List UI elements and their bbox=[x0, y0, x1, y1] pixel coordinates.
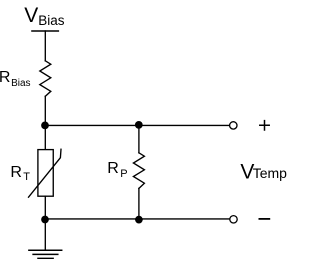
svg-text:Temp: Temp bbox=[253, 165, 287, 181]
svg-text:P: P bbox=[120, 168, 127, 180]
svg-text:T: T bbox=[23, 171, 30, 183]
svg-text:Bias: Bias bbox=[38, 13, 65, 28]
svg-text:R: R bbox=[10, 164, 22, 181]
svg-text:Bias: Bias bbox=[11, 78, 30, 89]
svg-text:R: R bbox=[107, 160, 119, 177]
svg-text:V: V bbox=[24, 4, 38, 27]
svg-text:R: R bbox=[0, 69, 10, 86]
